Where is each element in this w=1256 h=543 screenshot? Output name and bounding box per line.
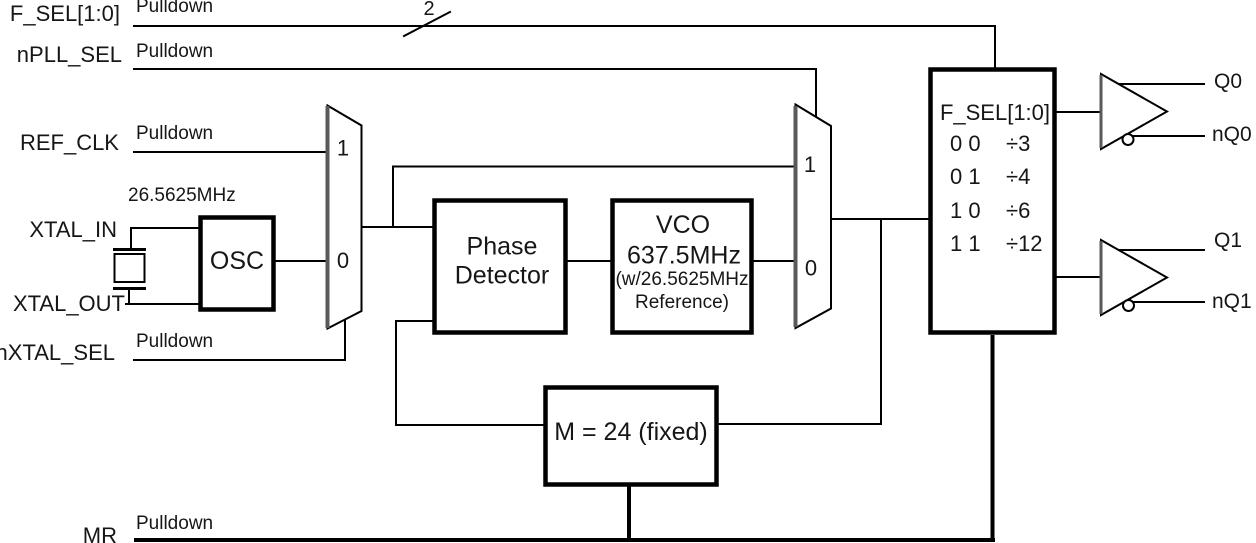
svg-text:÷3: ÷3 xyxy=(1006,131,1030,156)
svg-text:Q1: Q1 xyxy=(1214,229,1242,252)
svg-text:MR: MR xyxy=(83,523,117,543)
svg-text:0 0: 0 0 xyxy=(950,131,981,156)
svg-text:Pulldown: Pulldown xyxy=(136,331,213,352)
svg-text:Pulldown: Pulldown xyxy=(136,0,213,17)
svg-text:Q0: Q0 xyxy=(1214,70,1242,93)
svg-text:F_SEL[1:0]: F_SEL[1:0] xyxy=(10,1,120,26)
svg-text:0: 0 xyxy=(337,248,349,273)
svg-text:Pulldown: Pulldown xyxy=(136,41,213,62)
svg-text:637.5MHz: 637.5MHz xyxy=(627,242,741,270)
svg-text:Pulldown: Pulldown xyxy=(136,513,213,534)
svg-text:M = 24 (fixed): M = 24 (fixed) xyxy=(554,418,708,446)
svg-text:2: 2 xyxy=(423,0,434,20)
svg-text:26.5625MHz: 26.5625MHz xyxy=(128,185,236,206)
svg-text:0: 0 xyxy=(805,256,817,281)
svg-text:VCO: VCO xyxy=(656,211,710,239)
svg-text:REF_CLK: REF_CLK xyxy=(20,130,119,155)
svg-text:÷6: ÷6 xyxy=(1006,198,1030,223)
svg-text:F_SEL[1:0]: F_SEL[1:0] xyxy=(940,100,1050,125)
svg-text:nQ1: nQ1 xyxy=(1212,290,1252,313)
svg-text:1 1: 1 1 xyxy=(950,231,981,256)
svg-text:Pulldown: Pulldown xyxy=(136,123,213,144)
svg-text:÷4: ÷4 xyxy=(1006,164,1030,189)
svg-text:OSC: OSC xyxy=(210,247,264,275)
svg-text:1: 1 xyxy=(337,136,349,161)
svg-text:nQ0: nQ0 xyxy=(1212,123,1252,146)
svg-text:nXTAL_SEL: nXTAL_SEL xyxy=(0,340,115,365)
svg-text:nPLL_SEL: nPLL_SEL xyxy=(17,42,122,67)
svg-text:÷12: ÷12 xyxy=(1006,231,1043,256)
svg-text:1 0: 1 0 xyxy=(950,198,981,223)
svg-text:XTAL_IN: XTAL_IN xyxy=(29,217,117,242)
svg-text:(w/26.5625MHz: (w/26.5625MHz xyxy=(615,269,748,290)
svg-text:1: 1 xyxy=(804,152,816,177)
svg-text:XTAL_OUT: XTAL_OUT xyxy=(13,291,125,316)
svg-text:0 1: 0 1 xyxy=(950,164,981,189)
svg-text:Reference): Reference) xyxy=(635,292,729,313)
svg-text:Phase: Phase xyxy=(467,233,538,261)
svg-text:Detector: Detector xyxy=(455,262,549,290)
